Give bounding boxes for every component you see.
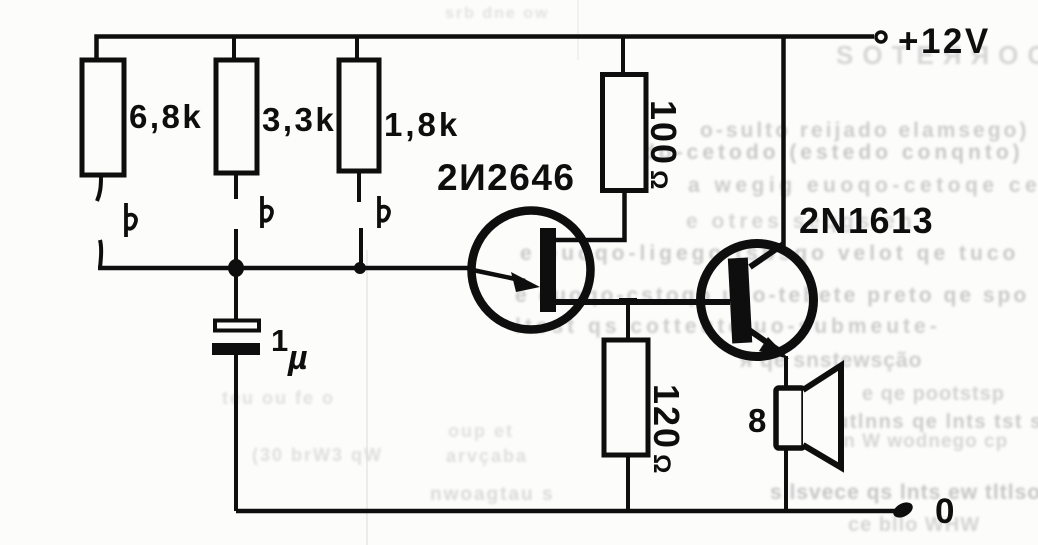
svg-text:1,8k: 1,8k	[384, 106, 460, 143]
wire: R3 lower stub to bus	[359, 228, 363, 268]
svg-text:(30 brW3 qW: (30 brW3 qW	[252, 445, 383, 465]
wire: emitter bus (left horizontal)	[98, 266, 470, 271]
resistor R4 100 ohm body	[603, 37, 647, 191]
svg-text:8: 8	[748, 402, 766, 439]
svg-text:oup et: oup et	[448, 421, 514, 441]
svg-text:2N1613: 2N1613	[799, 200, 934, 241]
op: UJT Q1 2N2646 circle	[472, 211, 591, 330]
svg-text:µ: µ	[287, 339, 308, 377]
wire: C1 to bottom bus	[234, 355, 238, 511]
label: 2N1613	[799, 200, 934, 241]
switch S2 contact mark	[262, 196, 272, 228]
resistor R5 120 ohm body	[604, 298, 648, 511]
wire: +12V top rail	[97, 37, 875, 59]
label: 1,8k	[384, 106, 460, 143]
svg-text:arvçaba: arvçaba	[446, 446, 528, 466]
speaker LS1 driver box	[776, 388, 804, 448]
svg-text:0: 0	[935, 492, 954, 531]
svg-text:ce bllo WHW: ce bllo WHW	[848, 514, 980, 536]
node: junction at C1 top	[228, 259, 244, 277]
wire: junction to C1	[234, 268, 238, 321]
label: 8 ohm	[748, 402, 766, 439]
label: 0	[935, 492, 954, 531]
wire: R2 bottom stub	[234, 175, 238, 199]
svg-text:o-sulto reijado elamsego): o-sulto reijado elamsego)	[700, 119, 1029, 142]
label: 1µ	[271, 323, 308, 377]
wire: 0V bottom bus	[236, 509, 899, 514]
svg-text:nwoagtau s: nwoagtau s	[430, 484, 555, 505]
wire: R1 bottom stub	[97, 177, 101, 201]
svg-text:6,8k: 6,8k	[129, 98, 203, 135]
terminal: 0V end blob	[891, 499, 916, 520]
svg-text:e qe pootstsp: e qe pootstsp	[862, 383, 1005, 405]
terminal: +12V open circle	[876, 32, 886, 42]
transistor Q1 base bar	[540, 228, 556, 312]
switch S3 contact mark	[379, 196, 389, 228]
svg-text:s lsvece qs lnts ew tltlsot: s lsvece qs lnts ew tltlsot	[770, 481, 1038, 504]
resistor R2 3,3k body	[216, 37, 257, 174]
transistor Q2 2N1613 circle	[701, 244, 814, 357]
wire: R3 bottom stub	[357, 173, 361, 202]
resistor R3 1,8k body	[339, 37, 379, 172]
svg-text:srb dne ow: srb dne ow	[445, 5, 549, 22]
svg-text:a wegig euoqo-cetoqe ce: a wegig euoqo-cetoqe ce	[688, 174, 1038, 197]
wire: Q2 emitter with arrow	[749, 330, 789, 387]
svg-text:do-cetodo (estedo conqnto): do-cetodo (estedo conqnto)	[642, 141, 1024, 164]
wire: R1 lower stub to bus	[100, 240, 101, 268]
resistor R1 6,8k body	[82, 60, 124, 175]
wire: R2 lower stub to bus	[234, 229, 238, 268]
label: 6,8k	[129, 98, 203, 135]
node: junction at R3 leg	[354, 262, 366, 274]
svg-text:2И2646: 2И2646	[437, 157, 575, 198]
svg-text:3,3k: 3,3k	[262, 101, 336, 138]
capacitor C1 top plate	[215, 321, 259, 331]
speaker LS1 horn	[803, 366, 841, 468]
wire: Q1 emitter diagonal with arrow	[468, 269, 540, 292]
wire: LS1 to bottom bus	[784, 448, 788, 511]
wire: Q1 base2 to R4	[554, 191, 625, 240]
label: +12V	[898, 22, 991, 61]
label: 100 ohm (rotated)	[643, 100, 684, 191]
switch S1 contact mark	[126, 203, 136, 237]
transistor Q2 base bar	[728, 258, 752, 344]
label: 120 ohm (rotated)	[646, 384, 687, 475]
svg-text:1: 1	[271, 323, 288, 358]
svg-text:ltcst qs cotteute uo-submeute-: ltcst qs cotteute uo-submeute-	[515, 315, 941, 338]
wire: Q1 base1 to Q2 base	[554, 299, 730, 305]
wire: Q2 collector	[750, 37, 784, 268]
svg-text:teu ou fe o: teu ou fe o	[222, 388, 335, 408]
svg-text:+12V: +12V	[898, 22, 991, 61]
label: 3,3k	[262, 101, 336, 138]
label: 2N2646	[437, 157, 575, 198]
capacitor C1 bottom plate	[212, 343, 260, 355]
